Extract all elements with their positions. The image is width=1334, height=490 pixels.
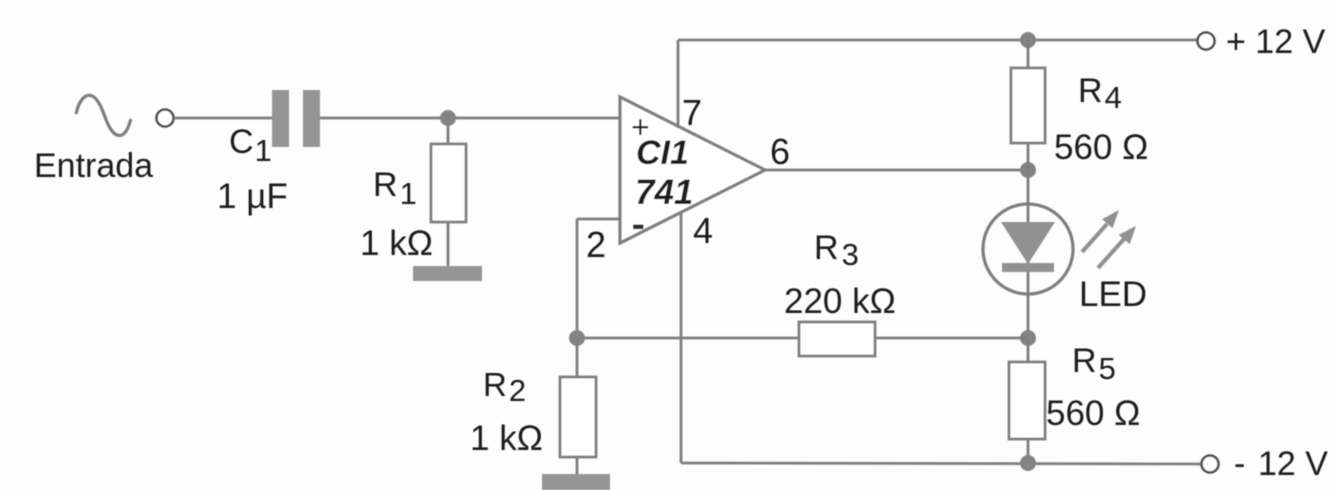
svg-text:2: 2	[586, 224, 606, 265]
wire R4 top	[1027, 40, 1030, 70]
pin 2 vertical wire	[576, 219, 579, 338]
svg-text:741: 741	[635, 173, 693, 212]
LED arrow 2	[1098, 239, 1124, 268]
feedback wire right segment	[875, 337, 1028, 340]
resistor R1	[431, 144, 466, 222]
LED arrow 1	[1082, 224, 1107, 252]
node -12V rail / R5	[1020, 455, 1036, 471]
pin 6 output wire	[765, 169, 1028, 172]
svg-text:R3: R3	[814, 229, 859, 272]
svg-text:1 µF: 1 µF	[217, 177, 288, 216]
wire R1 to ground	[447, 222, 450, 268]
node LED bottom / feedback	[1020, 330, 1036, 346]
resistor R4	[1011, 68, 1045, 143]
input terminal	[157, 110, 174, 127]
svg-text:1 kΩ: 1 kΩ	[360, 224, 433, 263]
svg-text:LED: LED	[1079, 275, 1147, 314]
svg-text:R2: R2	[483, 366, 526, 408]
svg-text:R1: R1	[373, 166, 417, 211]
svg-text:R5: R5	[1072, 342, 1116, 386]
wire input to C1	[174, 117, 272, 120]
svg-text:R4: R4	[1078, 72, 1122, 115]
svg-text:-: -	[1234, 445, 1245, 483]
wire R5 bottom	[1027, 439, 1030, 463]
svg-text:220 kΩ: 220 kΩ	[784, 282, 896, 321]
pin 7 wire	[677, 40, 680, 128]
svg-text:Entrada: Entrada	[34, 147, 153, 185]
minus input mark	[633, 225, 644, 230]
resistor R5	[1009, 362, 1045, 439]
wire R4 bottom	[1027, 143, 1030, 170]
pin 2 stub wire	[577, 218, 620, 221]
resistor R2	[560, 377, 596, 457]
svg-text:7: 7	[682, 92, 702, 133]
svg-text:560 Ω: 560 Ω	[1046, 394, 1140, 433]
svg-text:560 Ω: 560 Ω	[1054, 128, 1148, 167]
+12V terminal	[1198, 33, 1215, 50]
svg-text:C1: C1	[229, 123, 272, 168]
wire R5 top	[1027, 338, 1030, 364]
resistor R3	[799, 322, 875, 356]
wire node to R1	[447, 118, 450, 146]
ground under R2	[542, 474, 610, 490]
LED cathode bar	[1002, 263, 1054, 272]
capacitor C1	[272, 90, 289, 147]
wire R2 top	[576, 338, 579, 379]
svg-text:12 V: 12 V	[1258, 445, 1328, 483]
wire R2 bottom	[576, 457, 579, 476]
node feedback at pin2 line	[569, 330, 585, 346]
svg-text:CI1: CI1	[636, 134, 689, 172]
node at R1 top	[440, 110, 456, 126]
svg-text:+ 12 V: + 12 V	[1226, 23, 1326, 61]
-12V rail wire	[681, 463, 1201, 464]
ground under R1	[413, 266, 482, 281]
svg-text:6: 6	[770, 131, 790, 172]
LED triangle	[1001, 222, 1055, 264]
AC source symbol	[76, 95, 131, 135]
LED circle	[983, 204, 1073, 294]
svg-text:4: 4	[693, 210, 713, 251]
-12V terminal	[1202, 456, 1219, 473]
node +12V rail / R4	[1020, 32, 1036, 48]
wire C1 to op-amp + input	[320, 117, 620, 120]
node output / R4 bottom	[1020, 162, 1036, 178]
+12V rail wire	[678, 39, 1197, 42]
feedback wire left segment	[577, 337, 799, 340]
svg-text:1 kΩ: 1 kΩ	[470, 419, 543, 458]
pin 4 wire	[680, 212, 683, 463]
LED wire through	[1027, 170, 1030, 338]
op-amp U1 CI1 741	[620, 97, 765, 243]
